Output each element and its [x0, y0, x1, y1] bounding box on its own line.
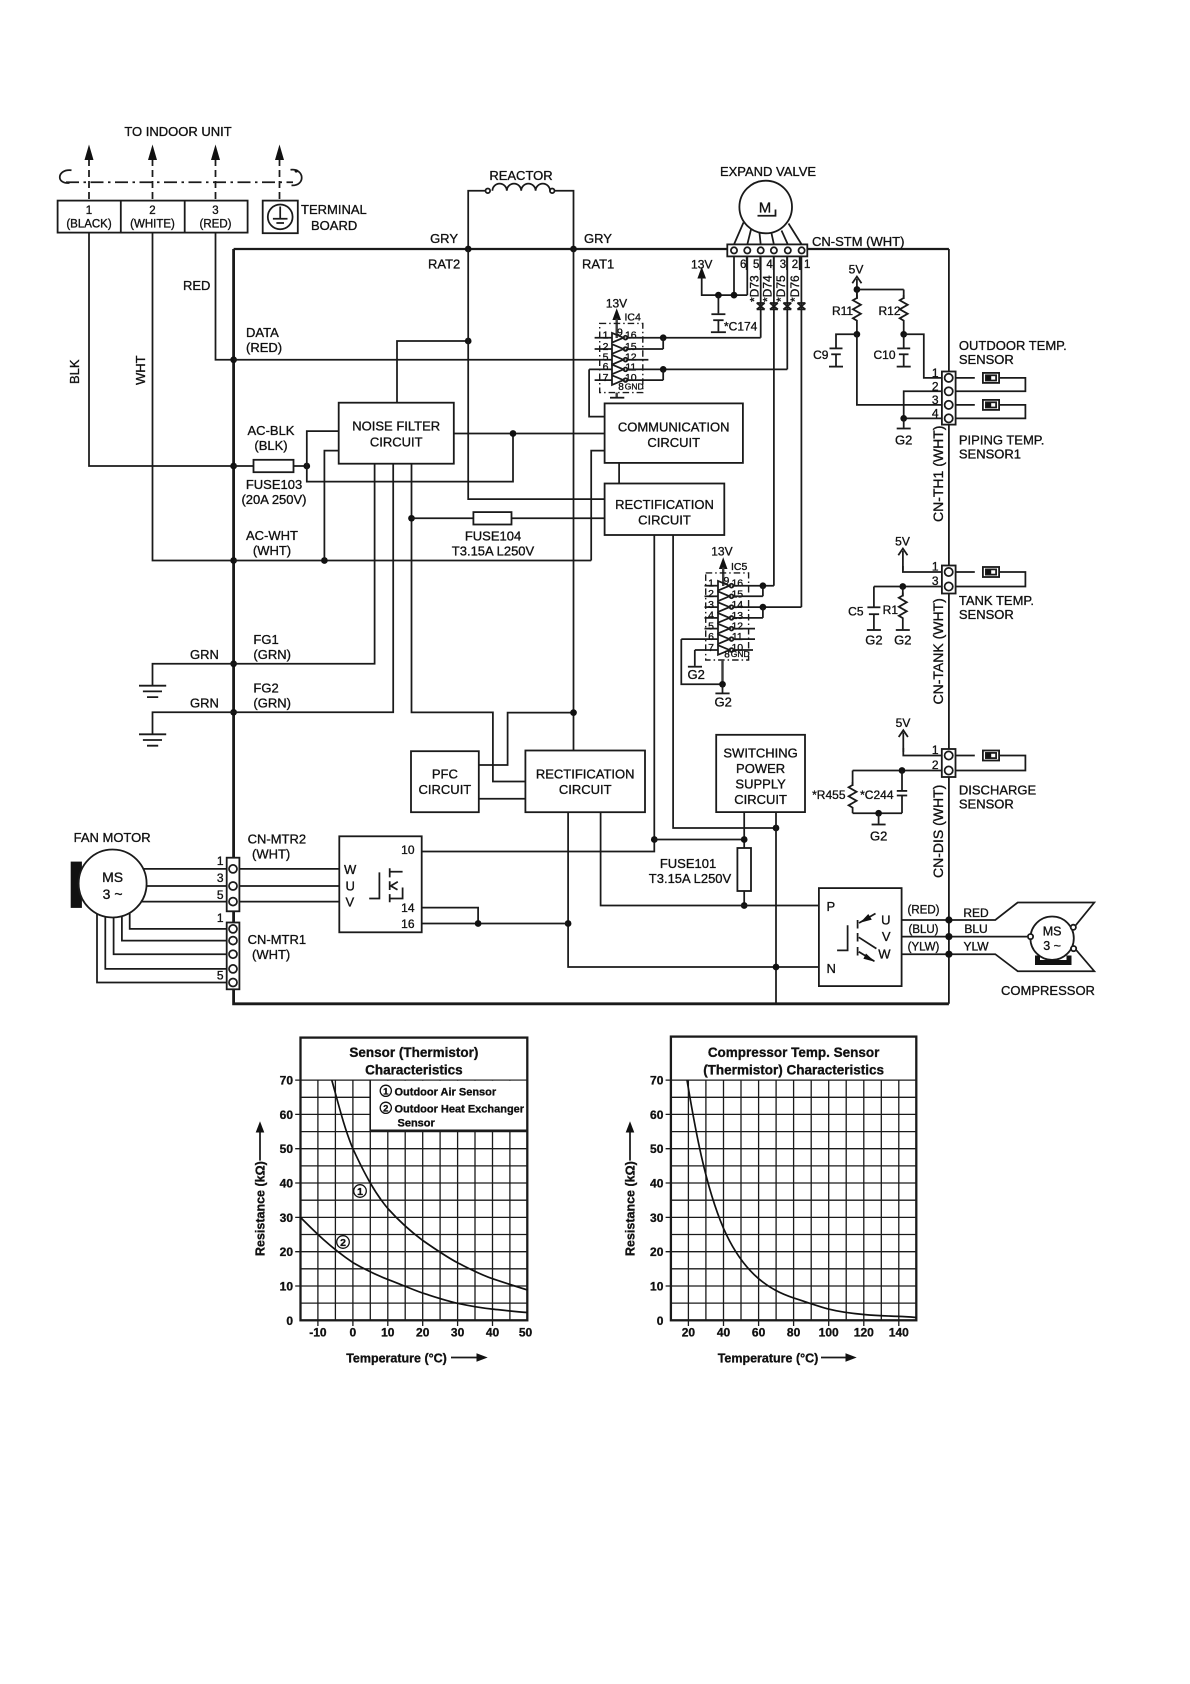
- svg-text:CIRCUIT: CIRCUIT: [638, 513, 691, 528]
- svg-text:(GRN): (GRN): [253, 696, 291, 711]
- svg-text:G2: G2: [715, 695, 732, 710]
- connector CN-TANK: [942, 566, 956, 594]
- svg-text:80: 80: [787, 1326, 801, 1340]
- svg-text:GRY: GRY: [430, 231, 458, 246]
- wire arrow 1 to indoor unit: [85, 145, 94, 200]
- svg-text:RED: RED: [963, 906, 989, 920]
- svg-text:Temperature (°C): Temperature (°C): [718, 1352, 819, 1366]
- ground G2 outdoor sensors: [895, 418, 912, 447]
- compressor harness U phase: [902, 903, 1095, 927]
- wire pin5 to 13V line: [746, 256, 748, 295]
- svg-text:60: 60: [650, 1108, 664, 1122]
- svg-text:(RED): (RED): [908, 905, 940, 917]
- svg-text:T3.15A L250V: T3.15A L250V: [452, 544, 535, 559]
- svg-text:3 ~: 3 ~: [1043, 939, 1061, 953]
- svg-text:C5: C5: [848, 605, 864, 619]
- fuse FUSE101 (vertical): [737, 848, 751, 891]
- svg-text:13V: 13V: [606, 297, 627, 311]
- chart1 legend panel: [370, 1080, 527, 1130]
- wire noise filter to communication circuit: [454, 433, 605, 435]
- svg-text:CIRCUIT: CIRCUIT: [559, 782, 612, 797]
- svg-text:BOARD: BOARD: [311, 218, 357, 233]
- node C244 tap: [899, 767, 906, 774]
- node 5V split: [854, 286, 861, 293]
- node G2 tap: [875, 810, 882, 817]
- IC4 inverter row 5-12: [603, 352, 649, 365]
- communication circuit block: [605, 403, 743, 463]
- wire FG1 to noise filter: [234, 464, 375, 664]
- svg-text:R1: R1: [883, 603, 899, 617]
- svg-text:20: 20: [682, 1326, 696, 1340]
- svg-text:M: M: [759, 200, 772, 217]
- svg-text:TO INDOOR UNIT: TO INDOOR UNIT: [124, 124, 231, 139]
- svg-text:3: 3: [932, 393, 939, 407]
- svg-text:CIRCUIT: CIRCUIT: [419, 782, 472, 797]
- svg-text:(RED): (RED): [246, 340, 282, 355]
- resistor R455: [812, 771, 856, 814]
- svg-text:*R455: *R455: [812, 788, 846, 802]
- svg-text:30: 30: [280, 1211, 294, 1225]
- svg-text:GRY: GRY: [584, 231, 612, 246]
- wire RAT2 branch to noise filter top: [397, 341, 468, 403]
- svg-text:70: 70: [650, 1074, 664, 1088]
- svg-text:TERMINAL: TERMINAL: [301, 202, 367, 217]
- IC5 inverter row 3-14: [705, 599, 802, 612]
- svg-text:Temperature (°C): Temperature (°C): [346, 1352, 447, 1366]
- svg-text:V: V: [882, 929, 891, 944]
- chart2 x axis title and arrow: [718, 1352, 857, 1366]
- svg-text:GRN: GRN: [190, 647, 219, 662]
- wire DATA line to IC4 pin5: [234, 359, 612, 361]
- svg-text:FAN MOTOR: FAN MOTOR: [74, 830, 151, 845]
- svg-text:(Thermistor) Characteristics: (Thermistor) Characteristics: [703, 1063, 884, 1078]
- node RAT2 on top edge: [465, 246, 472, 253]
- node AC-BLK on left border: [230, 463, 237, 470]
- svg-text:1: 1: [932, 743, 939, 757]
- svg-text:WHT: WHT: [133, 355, 148, 385]
- pin number dividers and labels 6..1: [740, 256, 810, 271]
- svg-text:2: 2: [383, 1103, 388, 1114]
- svg-text:U: U: [346, 879, 355, 894]
- wire IC5 pin6 to GND node: [681, 639, 722, 684]
- resistor R1: [883, 587, 912, 648]
- wire RAT2 vertical down to rectification circuit: [468, 249, 604, 499]
- chart1 curve 1 outdoor air: [332, 1080, 528, 1290]
- svg-text:Outdoor Air Sensor: Outdoor Air Sensor: [395, 1086, 497, 1098]
- wire module pin16: [422, 923, 568, 925]
- svg-text:(20A 250V): (20A 250V): [241, 492, 306, 507]
- capacitor C5: [848, 587, 882, 648]
- wire pin6 to 13V line: [733, 256, 735, 295]
- connector CN-DIS: [942, 749, 956, 777]
- capacitor C10: [873, 334, 910, 366]
- svg-text:MS: MS: [102, 869, 123, 885]
- svg-text:RECTIFICATION: RECTIFICATION: [615, 497, 714, 512]
- IC4 pin8 GND: [610, 382, 644, 398]
- node R11 bottom: [854, 331, 861, 338]
- svg-text:G2: G2: [895, 433, 912, 448]
- svg-text:W: W: [878, 947, 891, 962]
- 13V supply for IC4: [606, 297, 627, 339]
- svg-text:(GRN): (GRN): [253, 647, 291, 662]
- IC5 pin8 GND: [723, 649, 750, 684]
- node R1 tap: [899, 583, 906, 590]
- svg-text:DISCHARGE: DISCHARGE: [959, 783, 1037, 798]
- PFC circuit block: [411, 751, 479, 812]
- wire pin3 line: [874, 586, 942, 588]
- svg-text:70: 70: [280, 1074, 294, 1088]
- capacitor C9: [813, 334, 857, 366]
- svg-text:PFC: PFC: [432, 767, 458, 782]
- diode D73 with wire: [747, 256, 764, 337]
- connector CN-MTR2: [227, 858, 240, 912]
- svg-text:SENSOR: SENSOR: [959, 797, 1014, 812]
- noise filter circuit block: [339, 403, 454, 464]
- svg-text:RAT2: RAT2: [428, 257, 460, 272]
- svg-text:AC-BLK: AC-BLK: [248, 423, 295, 438]
- svg-text:C9: C9: [813, 348, 829, 362]
- wires motor to connector pins: [734, 223, 802, 245]
- svg-text:FUSE101: FUSE101: [660, 856, 716, 871]
- resistor R12: [878, 290, 907, 335]
- svg-text:NOISE FILTER: NOISE FILTER: [352, 419, 440, 434]
- svg-text:(WHT): (WHT): [252, 947, 290, 962]
- node RAT1 on top edge: [570, 246, 577, 253]
- svg-text:16: 16: [625, 330, 637, 342]
- svg-text:MS: MS: [1043, 925, 1062, 939]
- 5V supply discharge: [896, 716, 911, 752]
- svg-text:5V: 5V: [895, 535, 910, 549]
- fuse FUSE104: [412, 512, 605, 524]
- svg-text:0: 0: [657, 1314, 664, 1328]
- node IC5 gnd: [719, 681, 726, 688]
- svg-text:FUSE104: FUSE104: [465, 529, 521, 544]
- svg-text:4: 4: [932, 407, 939, 421]
- svg-text:(WHT): (WHT): [253, 543, 291, 558]
- svg-text:CIRCUIT: CIRCUIT: [734, 792, 787, 807]
- node FUSE103 right: [303, 463, 310, 470]
- chart2 grid: [671, 1080, 916, 1320]
- IC5 inverter row 1-16: [705, 578, 774, 591]
- IC4 buffer array box: [600, 323, 643, 392]
- svg-text:3: 3: [780, 259, 786, 271]
- svg-text:20: 20: [416, 1326, 430, 1340]
- svg-text:(RED): (RED): [200, 219, 232, 231]
- svg-text:0: 0: [286, 1314, 293, 1328]
- svg-text:G2: G2: [870, 829, 887, 844]
- svg-text:G2: G2: [894, 633, 911, 648]
- IGBT symbol inside module: [369, 868, 402, 902]
- wire PFC output to RAT1 node: [479, 713, 574, 765]
- wire 5V to pin1: [903, 748, 942, 756]
- pcb border top edge: [234, 248, 949, 250]
- wire rect2 pin to P line: [601, 812, 819, 905]
- svg-text:40: 40: [486, 1326, 500, 1340]
- chart2 y axis arrow and title: [624, 1121, 638, 1256]
- svg-text:1: 1: [357, 1186, 363, 1198]
- 13V supply for IC5: [711, 545, 732, 587]
- svg-text:C10: C10: [873, 348, 895, 362]
- svg-text:4: 4: [766, 259, 773, 271]
- IC5 inverter row 5-12: [705, 620, 756, 633]
- svg-text:10: 10: [280, 1280, 294, 1294]
- ground FG2: [139, 712, 234, 745]
- svg-text:2: 2: [932, 758, 939, 772]
- IC5 inverter row 7-10: [695, 642, 753, 655]
- chart2 border: [671, 1037, 916, 1321]
- IC5 inverter row 2-15: [705, 586, 763, 601]
- compressor mount bracket: [1038, 956, 1070, 963]
- svg-text:PIPING TEMP.: PIPING TEMP.: [959, 433, 1045, 448]
- thermistor outdoor air: [956, 373, 1026, 391]
- fan motor mount bar: [71, 862, 82, 908]
- svg-text:0: 0: [350, 1326, 357, 1340]
- 5V supply tank: [895, 535, 910, 571]
- wire bottom join: [853, 812, 902, 814]
- svg-text:REACTOR: REACTOR: [489, 168, 552, 183]
- diode D74 with wire: [761, 256, 778, 585]
- svg-text:V: V: [346, 895, 355, 910]
- node DATA on left border: [230, 356, 237, 363]
- wire terminal2 WHT down to AC-WHT line: [153, 233, 234, 561]
- IC5 inverter row 4-13: [705, 607, 763, 623]
- IC5 inverter row 6-11: [681, 631, 755, 644]
- chart1 marker 2: [337, 1236, 350, 1249]
- svg-text:*C174: *C174: [724, 320, 758, 334]
- svg-text:R12: R12: [878, 304, 900, 318]
- svg-text:IC4: IC4: [625, 312, 642, 324]
- fan motor MS circle: [79, 850, 147, 918]
- svg-text:FUSE103: FUSE103: [246, 477, 302, 492]
- IC4 inverter row 6-11: [589, 361, 787, 374]
- IC4 inverter row 1-16: [595, 330, 761, 343]
- svg-text:CN-TH1 (WHT): CN-TH1 (WHT): [930, 426, 946, 522]
- svg-text:RAT1: RAT1: [582, 257, 614, 272]
- svg-text:1: 1: [932, 366, 939, 380]
- inverter module W U V box: [339, 836, 421, 932]
- compressor harness W phase: [902, 949, 1095, 971]
- IC4 inverter row 7-10: [595, 369, 664, 385]
- capacitor C244: [860, 771, 907, 814]
- svg-text:Sensor (Thermistor): Sensor (Thermistor): [349, 1045, 478, 1060]
- svg-text:POWER: POWER: [736, 761, 785, 776]
- svg-text:GRN: GRN: [190, 696, 219, 711]
- connector CN-TH1: [942, 372, 956, 425]
- svg-text:*D75: *D75: [774, 275, 788, 302]
- wire arrow 4 (earth) to indoor unit: [275, 145, 284, 200]
- IPM P-N box: [819, 888, 902, 986]
- wire R12 node to pin1: [904, 334, 942, 378]
- node FG1 on left border: [230, 660, 237, 667]
- compressor motor MS: [1028, 917, 1076, 960]
- svg-text:1: 1: [217, 911, 224, 925]
- svg-text:40: 40: [280, 1177, 294, 1191]
- svg-text:RECTIFICATION: RECTIFICATION: [536, 767, 635, 782]
- svg-text:OUTDOOR TEMP.: OUTDOOR TEMP.: [959, 338, 1067, 353]
- svg-text:SENSOR1: SENSOR1: [959, 447, 1021, 462]
- svg-text:CN-MTR1: CN-MTR1: [248, 932, 307, 947]
- compressor harness V phase: [902, 936, 1027, 938]
- wire branch to fuse101 top: [654, 839, 744, 841]
- wire RAT1 vertical down to rectification circuit 2: [573, 249, 575, 751]
- connector CN-STM: [727, 244, 807, 256]
- thermistor piping: [956, 400, 1026, 419]
- svg-text:EXPAND VALVE: EXPAND VALVE: [720, 164, 816, 179]
- chart1 grid: [301, 1080, 528, 1320]
- svg-text:5: 5: [217, 969, 224, 983]
- nodes phase wires on border: [945, 916, 952, 923]
- pcb border right edge segments between connectors: [948, 249, 950, 1004]
- svg-text:*D73: *D73: [747, 275, 761, 302]
- svg-text:(WHT): (WHT): [252, 847, 290, 862]
- chart1 x labels: [309, 1326, 532, 1340]
- ground G2 discharge: [870, 813, 887, 843]
- svg-text:CN-TANK (WHT): CN-TANK (WHT): [930, 598, 946, 704]
- svg-text:Sensor: Sensor: [398, 1117, 436, 1129]
- wire terminal1 BLK down to AC-BLK line: [89, 233, 234, 466]
- SECTIONS: [58, 124, 367, 233]
- wire communication to rectification link: [618, 463, 620, 484]
- svg-text:FG1: FG1: [253, 632, 278, 647]
- svg-text:3: 3: [212, 205, 218, 217]
- thermistor tank: [956, 567, 1026, 587]
- svg-text:SWITCHING: SWITCHING: [723, 746, 797, 761]
- svg-text:140: 140: [889, 1326, 909, 1340]
- cable boundary dash-dot line: [60, 169, 302, 185]
- node rect1 pinA fuse101 branch: [651, 836, 658, 843]
- node SPS return junction: [773, 825, 780, 832]
- svg-text:1: 1: [932, 560, 939, 574]
- svg-text:CIRCUIT: CIRCUIT: [370, 435, 423, 450]
- ground FG1: [139, 664, 234, 697]
- svg-text:Characteristics: Characteristics: [365, 1063, 463, 1078]
- wire arrow 2 to indoor unit: [148, 145, 157, 200]
- wire rect1 bottom pinB to SPS return: [673, 535, 776, 828]
- svg-text:AC-WHT: AC-WHT: [246, 528, 298, 543]
- svg-text:10: 10: [650, 1280, 664, 1294]
- chart1 border: [301, 1038, 528, 1321]
- svg-text:30: 30: [451, 1326, 465, 1340]
- svg-text:8: 8: [618, 382, 624, 393]
- svg-text:60: 60: [280, 1108, 294, 1122]
- svg-text:T3.15A L250V: T3.15A L250V: [649, 871, 732, 886]
- svg-text:(BLK): (BLK): [254, 438, 287, 453]
- svg-text:10: 10: [401, 843, 415, 857]
- svg-text:P: P: [827, 899, 836, 914]
- chart1 x axis title and arrow: [346, 1352, 488, 1366]
- svg-text:CIRCUIT: CIRCUIT: [647, 435, 700, 450]
- svg-text:(YLW): (YLW): [908, 942, 940, 954]
- svg-text:50: 50: [650, 1142, 664, 1156]
- wire pin2 to G2: [904, 391, 942, 418]
- chart2 axis ticks: [666, 1080, 899, 1326]
- terminal board block 1-2-3: [58, 201, 248, 233]
- svg-text:13V: 13V: [711, 545, 732, 559]
- node G2 tap: [900, 415, 907, 422]
- wire rect2 pin to N line: [568, 812, 819, 967]
- wire fuse103 branch to rectification circuit: [307, 434, 513, 482]
- wires motor to CN-MTR2: [141, 869, 226, 902]
- svg-text:-10: -10: [309, 1326, 327, 1340]
- svg-text:BLU: BLU: [964, 922, 987, 936]
- node pin14-16 join: [475, 920, 482, 927]
- node fuse104 left: [408, 515, 415, 522]
- svg-text:16: 16: [401, 917, 415, 931]
- 5V supply sensors: [849, 263, 864, 299]
- svg-text:*C244: *C244: [860, 788, 894, 802]
- wires motor to CN-MTR1 nested: [97, 914, 227, 983]
- expand valve motor M: [739, 181, 792, 234]
- svg-text:1: 1: [217, 854, 224, 868]
- svg-text:COMMUNICATION: COMMUNICATION: [618, 420, 730, 435]
- svg-text:Outdoor Heat Exchanger: Outdoor Heat Exchanger: [395, 1103, 525, 1115]
- svg-text:14: 14: [401, 901, 415, 915]
- wire IC4 pin6 to communication circuit: [589, 369, 605, 416]
- wire module pin14: [422, 908, 478, 924]
- wire AC-WHT line: [234, 560, 592, 562]
- chart1 y labels: [280, 1074, 294, 1328]
- svg-text:(WHITE): (WHITE): [130, 219, 175, 231]
- IC4 inverter row 2-15: [595, 338, 664, 354]
- ground G2 for IC5 pin8: [715, 684, 732, 709]
- svg-text:R11: R11: [832, 304, 853, 318]
- svg-text:3: 3: [217, 871, 224, 885]
- svg-text:2: 2: [149, 205, 155, 217]
- svg-text:(BLU): (BLU): [908, 924, 938, 936]
- node fuse101 top: [741, 836, 748, 843]
- svg-text:*D76: *D76: [788, 275, 802, 302]
- svg-text:40: 40: [650, 1177, 664, 1191]
- chart1 axis ticks: [295, 1080, 492, 1326]
- svg-text:20: 20: [280, 1245, 294, 1259]
- svg-text:5V: 5V: [849, 263, 864, 277]
- chart2 x labels: [682, 1326, 909, 1340]
- IGBT switch symbols inside: [837, 914, 876, 962]
- svg-text:SENSOR: SENSOR: [959, 352, 1014, 367]
- wire terminal3 RED down to DATA line: [216, 233, 234, 360]
- svg-text:20: 20: [650, 1245, 664, 1259]
- wire SPS pinB down to bottom border: [775, 812, 777, 1004]
- svg-text:40: 40: [717, 1326, 731, 1340]
- svg-text:5: 5: [753, 259, 759, 271]
- wire FG2 to noise filter: [234, 464, 394, 713]
- wire PFC to rectification2 lower link: [479, 798, 526, 800]
- chart1 curve 2 heat exchanger: [301, 1217, 528, 1312]
- switching power supply circuit block: [716, 735, 805, 812]
- ground G2 for IC5 pin7: [688, 650, 705, 682]
- wire rect1 bottom pinA down to IPM pin10 line: [422, 535, 655, 852]
- svg-text:Compressor Temp. Sensor: Compressor Temp. Sensor: [708, 1045, 880, 1060]
- svg-text:COMPRESSOR: COMPRESSOR: [1001, 983, 1095, 998]
- wires CN-MTR2 to inverter module: [239, 869, 339, 902]
- wire AC-WHT riser to communication circuit: [591, 451, 604, 561]
- svg-text:5V: 5V: [896, 716, 911, 730]
- thermistor discharge: [956, 751, 1026, 771]
- wire arrow 3 to indoor unit: [211, 145, 220, 200]
- svg-text:G2: G2: [865, 633, 882, 648]
- svg-text:60: 60: [752, 1326, 766, 1340]
- IC5 buffer array box: [706, 573, 749, 660]
- svg-text:50: 50: [280, 1142, 294, 1156]
- svg-text:8: 8: [724, 650, 730, 661]
- svg-text:CN-MTR2: CN-MTR2: [248, 832, 307, 847]
- fuse FUSE103: [234, 460, 307, 472]
- node noise filter comm junction: [510, 430, 517, 437]
- svg-text:7: 7: [708, 642, 714, 654]
- 13V supply for expand valve: [691, 258, 747, 296]
- svg-text:2: 2: [792, 259, 798, 271]
- wire 5V to pin1: [903, 566, 942, 572]
